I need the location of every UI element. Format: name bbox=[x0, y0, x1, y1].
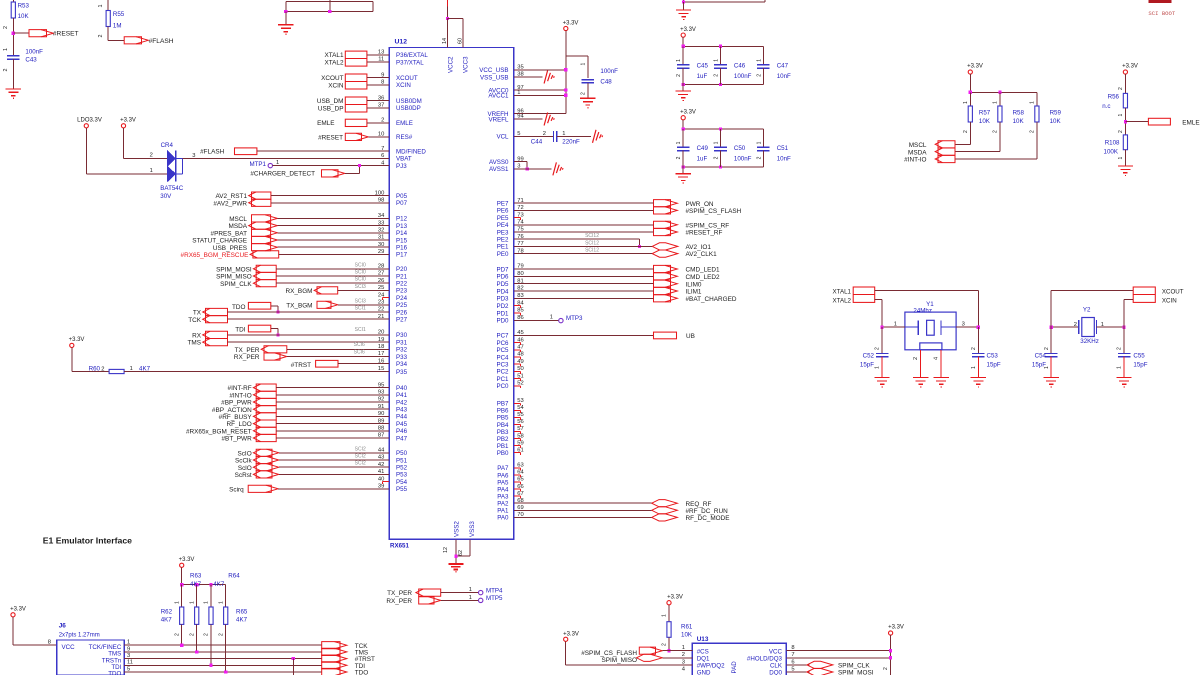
svg-text:1: 1 bbox=[1118, 114, 1124, 117]
svg-text:C44: C44 bbox=[531, 139, 543, 146]
svg-text:P51: P51 bbox=[396, 457, 408, 464]
svg-text:SCI2: SCI2 bbox=[355, 454, 366, 460]
svg-text:1: 1 bbox=[581, 63, 587, 66]
svg-text:VCC2: VCC2 bbox=[447, 56, 454, 73]
svg-text:XCIN: XCIN bbox=[396, 82, 411, 89]
svg-text:VCC: VCC bbox=[769, 648, 783, 655]
svg-text:P32: P32 bbox=[396, 347, 408, 354]
svg-text:1: 1 bbox=[204, 601, 210, 604]
svg-text:PB3: PB3 bbox=[497, 429, 509, 436]
svg-text:XTAL1: XTAL1 bbox=[324, 52, 344, 59]
svg-text:ScIO: ScIO bbox=[237, 450, 251, 457]
svg-text:P24: P24 bbox=[396, 295, 408, 302]
svg-text:AV2_RST1: AV2_RST1 bbox=[216, 193, 248, 200]
svg-text:PD7: PD7 bbox=[496, 266, 509, 273]
svg-text:P44: P44 bbox=[396, 414, 408, 421]
svg-text:BAT54C: BAT54C bbox=[160, 185, 183, 192]
svg-text:1: 1 bbox=[993, 101, 999, 104]
svg-text:P55: P55 bbox=[396, 486, 408, 493]
svg-text:EMLE: EMLE bbox=[1182, 119, 1199, 126]
svg-text:2: 2 bbox=[963, 130, 969, 133]
svg-text:1: 1 bbox=[469, 595, 472, 601]
svg-text:8: 8 bbox=[791, 645, 794, 651]
svg-text:PD6: PD6 bbox=[496, 274, 509, 281]
svg-text:XTAL1: XTAL1 bbox=[833, 288, 852, 295]
svg-text:P13: P13 bbox=[396, 223, 408, 230]
svg-text:2: 2 bbox=[581, 92, 587, 95]
svg-text:C55: C55 bbox=[1133, 353, 1145, 360]
svg-text:1uF: 1uF bbox=[697, 155, 708, 162]
svg-text:CMD_LED2: CMD_LED2 bbox=[686, 274, 721, 281]
svg-text:EMLE: EMLE bbox=[396, 120, 413, 127]
svg-text:2: 2 bbox=[189, 633, 195, 636]
svg-text:CLK: CLK bbox=[770, 663, 783, 670]
svg-text:2: 2 bbox=[150, 153, 153, 159]
svg-text:VCL: VCL bbox=[496, 134, 509, 141]
svg-text:PE6: PE6 bbox=[497, 208, 509, 215]
svg-text:SCI BOOT: SCI BOOT bbox=[1148, 10, 1175, 17]
svg-text:SCI1: SCI1 bbox=[355, 306, 366, 312]
svg-text:TX_BGM: TX_BGM bbox=[286, 302, 312, 309]
svg-text:VSS_USB: VSS_USB bbox=[480, 74, 509, 81]
svg-text:P52: P52 bbox=[396, 465, 408, 472]
svg-text:SPIM_MOSI: SPIM_MOSI bbox=[838, 670, 874, 675]
svg-text:SPIM_MISO: SPIM_MISO bbox=[216, 274, 252, 281]
svg-text:PE2: PE2 bbox=[497, 237, 509, 244]
svg-text:+3.3V: +3.3V bbox=[563, 21, 579, 27]
svg-text:P05: P05 bbox=[396, 193, 408, 200]
svg-text:P25: P25 bbox=[396, 302, 408, 309]
svg-text:P17: P17 bbox=[396, 252, 408, 259]
svg-text:2: 2 bbox=[101, 366, 104, 372]
svg-text:J6: J6 bbox=[59, 622, 67, 629]
svg-text:10K: 10K bbox=[979, 118, 991, 125]
svg-text:#RX65_BGM_RESCUE: #RX65_BGM_RESCUE bbox=[181, 252, 249, 259]
svg-text:1: 1 bbox=[3, 48, 9, 51]
svg-text:10K: 10K bbox=[1013, 118, 1025, 125]
svg-text:4K7: 4K7 bbox=[213, 581, 225, 588]
svg-text:MTP4: MTP4 bbox=[486, 587, 503, 594]
svg-text:P42: P42 bbox=[396, 399, 408, 406]
svg-text:VCC: VCC bbox=[62, 644, 76, 651]
svg-text:+3.3V: +3.3V bbox=[10, 606, 26, 612]
svg-text:SPIM_MISO: SPIM_MISO bbox=[601, 657, 637, 664]
svg-text:2: 2 bbox=[883, 667, 889, 670]
svg-text:CMD_LED1: CMD_LED1 bbox=[686, 267, 721, 274]
svg-text:PE7: PE7 bbox=[497, 201, 509, 208]
svg-text:10nF: 10nF bbox=[777, 73, 791, 80]
svg-text:XCOUT: XCOUT bbox=[396, 75, 418, 82]
svg-text:PB4: PB4 bbox=[497, 422, 509, 429]
svg-text:SCI0: SCI0 bbox=[355, 277, 366, 283]
svg-text:#SPIM_CS_RF: #SPIM_CS_RF bbox=[686, 222, 730, 229]
svg-text:MSDA: MSDA bbox=[908, 149, 927, 156]
svg-text:GND: GND bbox=[697, 670, 711, 675]
svg-text:#RX65x_BGM_RESET: #RX65x_BGM_RESET bbox=[186, 428, 252, 435]
svg-text:PC1: PC1 bbox=[496, 376, 509, 383]
svg-text:1: 1 bbox=[756, 141, 762, 144]
svg-text:PC6: PC6 bbox=[496, 340, 509, 347]
svg-text:2: 2 bbox=[3, 26, 9, 29]
svg-text:1: 1 bbox=[218, 601, 224, 604]
svg-text:n.c: n.c bbox=[1102, 103, 1110, 110]
svg-text:2: 2 bbox=[1118, 87, 1124, 90]
svg-text:1: 1 bbox=[550, 315, 553, 321]
svg-text:USB_PRES: USB_PRES bbox=[213, 245, 247, 252]
svg-text:2: 2 bbox=[543, 131, 546, 137]
svg-text:P16: P16 bbox=[396, 245, 408, 252]
svg-text:P36/EXTAL: P36/EXTAL bbox=[396, 52, 428, 59]
svg-text:2: 2 bbox=[756, 156, 762, 159]
svg-text:2: 2 bbox=[98, 35, 104, 38]
svg-text:#CS: #CS bbox=[697, 648, 709, 655]
svg-text:RX_PER: RX_PER bbox=[234, 354, 260, 361]
svg-text:PC0: PC0 bbox=[496, 383, 509, 390]
svg-text:2: 2 bbox=[913, 357, 919, 360]
svg-text:PC5: PC5 bbox=[496, 347, 509, 354]
svg-text:SPIM_CLK: SPIM_CLK bbox=[838, 663, 870, 670]
svg-text:P27: P27 bbox=[396, 317, 408, 324]
svg-text:#RF_BUSY: #RF_BUSY bbox=[219, 414, 253, 421]
svg-text:#FLASH: #FLASH bbox=[149, 38, 174, 45]
svg-text:PE1: PE1 bbox=[497, 244, 509, 251]
svg-text:2: 2 bbox=[676, 74, 682, 77]
svg-text:100K: 100K bbox=[1104, 149, 1119, 156]
svg-text:PA4: PA4 bbox=[497, 486, 509, 493]
svg-text:SCI3: SCI3 bbox=[355, 284, 366, 290]
svg-text:SPIM_MOSI: SPIM_MOSI bbox=[216, 266, 252, 273]
svg-text:ScClk: ScClk bbox=[235, 458, 252, 465]
svg-text:REQ_RF: REQ_RF bbox=[686, 501, 712, 508]
svg-text:9: 9 bbox=[127, 646, 130, 652]
svg-text:TDO: TDO bbox=[108, 671, 121, 675]
svg-text:+3.3V: +3.3V bbox=[888, 625, 904, 631]
svg-text:E1 Emulator Interface: E1 Emulator Interface bbox=[43, 536, 132, 546]
svg-text:2: 2 bbox=[714, 74, 720, 77]
svg-text:MTP5: MTP5 bbox=[486, 595, 503, 602]
svg-text:TDO: TDO bbox=[232, 304, 246, 311]
svg-text:PA6: PA6 bbox=[497, 472, 509, 479]
svg-text:SCI12: SCI12 bbox=[585, 233, 599, 239]
svg-text:AVSS0: AVSS0 bbox=[489, 159, 509, 166]
svg-text:PD4: PD4 bbox=[496, 288, 509, 295]
svg-text:SCI3: SCI3 bbox=[355, 299, 366, 305]
svg-text:P12: P12 bbox=[396, 216, 408, 223]
svg-text:R58: R58 bbox=[1013, 110, 1025, 117]
svg-text:AV2_CLK1: AV2_CLK1 bbox=[686, 251, 718, 258]
svg-text:U13: U13 bbox=[697, 636, 709, 643]
svg-text:1: 1 bbox=[174, 601, 180, 604]
svg-text:VSS3: VSS3 bbox=[469, 521, 476, 537]
svg-text:C46: C46 bbox=[734, 62, 746, 69]
svg-text:C52: C52 bbox=[863, 353, 875, 360]
svg-text:15pF: 15pF bbox=[1032, 362, 1046, 369]
svg-text:P47: P47 bbox=[396, 435, 408, 442]
svg-text:UB: UB bbox=[686, 333, 695, 340]
svg-text:1: 1 bbox=[469, 587, 472, 593]
svg-text:PE3: PE3 bbox=[497, 229, 509, 236]
svg-text:XTAL2: XTAL2 bbox=[324, 59, 344, 66]
svg-text:PC3: PC3 bbox=[496, 362, 509, 369]
svg-text:PE4: PE4 bbox=[497, 222, 509, 229]
svg-text:MSCL: MSCL bbox=[909, 142, 927, 149]
svg-text:R108: R108 bbox=[1105, 140, 1120, 147]
svg-text:2: 2 bbox=[1044, 347, 1050, 350]
svg-text:#BP_ACTION: #BP_ACTION bbox=[212, 407, 252, 414]
svg-text:PA2: PA2 bbox=[497, 501, 509, 508]
svg-text:C43: C43 bbox=[25, 57, 37, 64]
svg-text:10K: 10K bbox=[681, 631, 693, 638]
svg-text:PA5: PA5 bbox=[497, 479, 509, 486]
svg-text:P45: P45 bbox=[396, 421, 408, 428]
svg-text:XCIN: XCIN bbox=[328, 82, 344, 89]
svg-text:+3.3V: +3.3V bbox=[120, 117, 136, 123]
svg-text:XCIN: XCIN bbox=[1162, 297, 1177, 304]
svg-text:SCI2: SCI2 bbox=[355, 461, 366, 467]
svg-text:C45: C45 bbox=[697, 62, 709, 69]
svg-text:P35: P35 bbox=[396, 369, 408, 376]
svg-text:1: 1 bbox=[894, 321, 897, 327]
svg-text:#BT_PWR: #BT_PWR bbox=[222, 436, 253, 443]
svg-text:P14: P14 bbox=[396, 230, 408, 237]
svg-text:1: 1 bbox=[98, 5, 104, 8]
svg-text:RX_BGM: RX_BGM bbox=[286, 288, 313, 295]
svg-text:EMLE: EMLE bbox=[317, 120, 334, 127]
svg-text:Y2: Y2 bbox=[1083, 307, 1091, 314]
svg-text:1: 1 bbox=[676, 59, 682, 62]
svg-text:XCOUT: XCOUT bbox=[321, 75, 343, 82]
svg-text:P23: P23 bbox=[396, 288, 408, 295]
svg-text:+3.3V: +3.3V bbox=[69, 337, 85, 343]
svg-text:P54: P54 bbox=[396, 479, 408, 486]
svg-text:1M: 1M bbox=[113, 23, 122, 30]
svg-text:#INT-IO: #INT-IO bbox=[229, 392, 251, 399]
svg-text:2: 2 bbox=[714, 156, 720, 159]
svg-text:USB_DP: USB_DP bbox=[318, 105, 344, 112]
svg-text:#SPIM_CS_FLASH: #SPIM_CS_FLASH bbox=[686, 208, 742, 215]
svg-text:DQ0: DQ0 bbox=[769, 670, 782, 675]
svg-text:60: 60 bbox=[457, 38, 463, 44]
svg-text:2: 2 bbox=[756, 74, 762, 77]
svg-text:TMS: TMS bbox=[188, 340, 202, 347]
svg-text:#INT-IO: #INT-IO bbox=[904, 157, 926, 164]
svg-text:1: 1 bbox=[150, 168, 153, 174]
svg-text:TDI: TDI bbox=[235, 327, 246, 334]
svg-text:3: 3 bbox=[682, 659, 685, 665]
svg-text:#BAT_CHARGED: #BAT_CHARGED bbox=[686, 296, 737, 303]
svg-text:RF_LDO: RF_LDO bbox=[226, 421, 251, 428]
svg-text:1: 1 bbox=[189, 601, 195, 604]
svg-text:RX_PER: RX_PER bbox=[386, 598, 412, 605]
svg-text:62: 62 bbox=[458, 550, 464, 556]
svg-text:2: 2 bbox=[875, 347, 881, 350]
svg-text:AV2_IO1: AV2_IO1 bbox=[686, 244, 712, 251]
svg-text:C50: C50 bbox=[734, 145, 746, 152]
svg-text:P22: P22 bbox=[396, 281, 408, 288]
svg-text:ILIM1: ILIM1 bbox=[686, 289, 702, 296]
svg-text:ILIM0: ILIM0 bbox=[686, 281, 702, 288]
svg-text:MSDA: MSDA bbox=[229, 223, 248, 230]
svg-text:P31: P31 bbox=[396, 339, 408, 346]
svg-text:PWR_ON: PWR_ON bbox=[686, 201, 714, 208]
svg-text:2: 2 bbox=[204, 633, 210, 636]
svg-text:15pF: 15pF bbox=[860, 362, 874, 369]
svg-text:RES#: RES# bbox=[396, 134, 413, 141]
svg-text:1: 1 bbox=[662, 614, 668, 617]
svg-text:PE5: PE5 bbox=[497, 215, 509, 222]
svg-text:2: 2 bbox=[3, 69, 9, 72]
svg-text:R57: R57 bbox=[979, 110, 991, 117]
svg-text:MSCL: MSCL bbox=[229, 216, 247, 223]
svg-text:1: 1 bbox=[875, 366, 881, 369]
svg-text:PD3: PD3 bbox=[496, 296, 509, 303]
svg-text:15pF: 15pF bbox=[1133, 362, 1147, 369]
svg-text:SCI12: SCI12 bbox=[585, 248, 599, 254]
svg-text:PA0: PA0 bbox=[497, 515, 509, 522]
svg-text:30V: 30V bbox=[160, 193, 172, 200]
svg-text:6: 6 bbox=[791, 659, 794, 665]
svg-text:PA1: PA1 bbox=[497, 508, 509, 515]
svg-text:C47: C47 bbox=[777, 62, 789, 69]
svg-text:C51: C51 bbox=[777, 145, 789, 152]
svg-text:P34: P34 bbox=[396, 361, 408, 368]
svg-text:VCC_USB: VCC_USB bbox=[479, 67, 508, 74]
svg-text:1: 1 bbox=[756, 59, 762, 62]
svg-text:32KHz: 32KHz bbox=[1080, 338, 1099, 345]
svg-text:PD1: PD1 bbox=[496, 310, 509, 317]
svg-text:#TRST: #TRST bbox=[291, 362, 311, 369]
svg-text:C49: C49 bbox=[697, 145, 709, 152]
svg-text:C53: C53 bbox=[987, 353, 999, 360]
svg-text:XTAL2: XTAL2 bbox=[833, 297, 852, 304]
svg-text:P41: P41 bbox=[396, 392, 408, 399]
svg-text:100nF: 100nF bbox=[25, 48, 43, 55]
svg-text:VCC3: VCC3 bbox=[463, 56, 470, 73]
svg-text:R56: R56 bbox=[1108, 94, 1120, 101]
svg-text:4: 4 bbox=[682, 666, 686, 672]
svg-text:AVSS1: AVSS1 bbox=[489, 166, 509, 173]
svg-text:R63: R63 bbox=[190, 573, 202, 580]
svg-text:SclO: SclO bbox=[238, 465, 252, 472]
svg-text:Scirq: Scirq bbox=[229, 486, 244, 493]
svg-text:PB0: PB0 bbox=[497, 450, 509, 457]
svg-text:STATUT_CHARGE: STATUT_CHARGE bbox=[192, 238, 247, 245]
svg-text:2: 2 bbox=[1030, 130, 1036, 133]
svg-text:R53: R53 bbox=[18, 3, 30, 10]
svg-text:P37/XTAL: P37/XTAL bbox=[396, 59, 424, 66]
svg-text:SCI6: SCI6 bbox=[354, 342, 365, 348]
svg-text:+3.3V: +3.3V bbox=[967, 64, 983, 70]
svg-text:PAD: PAD bbox=[731, 661, 738, 674]
svg-text:4: 4 bbox=[933, 357, 939, 360]
svg-text:P21: P21 bbox=[396, 273, 408, 280]
svg-text:TDO: TDO bbox=[355, 670, 369, 675]
svg-text:1: 1 bbox=[1118, 157, 1124, 160]
svg-text:PB7: PB7 bbox=[497, 401, 509, 408]
svg-text:P43: P43 bbox=[396, 407, 408, 414]
svg-text:DQ1: DQ1 bbox=[697, 656, 710, 663]
svg-text:P53: P53 bbox=[396, 472, 408, 479]
svg-text:SCI0: SCI0 bbox=[355, 270, 366, 276]
svg-text:P50: P50 bbox=[396, 450, 408, 457]
svg-text:ScRst: ScRst bbox=[235, 472, 252, 479]
svg-text:+3.3V: +3.3V bbox=[680, 110, 696, 116]
svg-text:VREFL: VREFL bbox=[489, 116, 510, 123]
svg-text:SCI6: SCI6 bbox=[354, 349, 365, 355]
svg-text:P46: P46 bbox=[396, 428, 408, 435]
svg-text:+3.3V: +3.3V bbox=[179, 557, 195, 563]
svg-text:1: 1 bbox=[1117, 366, 1123, 369]
svg-text:P20: P20 bbox=[396, 266, 408, 273]
svg-text:#INT-RF: #INT-RF bbox=[228, 385, 252, 392]
svg-text:10nF: 10nF bbox=[777, 155, 791, 162]
svg-text:1: 1 bbox=[676, 141, 682, 144]
svg-text:+3.3V: +3.3V bbox=[667, 594, 683, 600]
svg-text:#AV2_PWR: #AV2_PWR bbox=[213, 200, 247, 207]
svg-text:R64: R64 bbox=[228, 573, 240, 580]
svg-text:12: 12 bbox=[443, 547, 449, 553]
svg-text:#RESET: #RESET bbox=[53, 31, 79, 38]
svg-text:2: 2 bbox=[993, 130, 999, 133]
svg-text:10K: 10K bbox=[1050, 118, 1062, 125]
svg-text:R61: R61 bbox=[681, 623, 693, 630]
svg-text:#WP/DQ2: #WP/DQ2 bbox=[697, 663, 725, 670]
svg-text:2: 2 bbox=[218, 633, 224, 636]
svg-text:PB5: PB5 bbox=[497, 415, 509, 422]
svg-text:SCI12: SCI12 bbox=[585, 240, 599, 246]
svg-text:2: 2 bbox=[676, 156, 682, 159]
svg-text:P30: P30 bbox=[396, 332, 408, 339]
svg-text:TX_PER: TX_PER bbox=[235, 347, 260, 354]
svg-text:SCI0: SCI0 bbox=[355, 262, 366, 268]
svg-text:3: 3 bbox=[192, 153, 195, 159]
svg-text:XCOUT: XCOUT bbox=[1162, 288, 1184, 295]
svg-text:RX651: RX651 bbox=[390, 543, 409, 550]
svg-text:PB6: PB6 bbox=[497, 408, 509, 415]
svg-text:USB0DM: USB0DM bbox=[396, 98, 422, 105]
svg-text:1: 1 bbox=[276, 160, 279, 166]
svg-text:CR4: CR4 bbox=[161, 142, 174, 149]
svg-text:USB0DP: USB0DP bbox=[396, 105, 421, 112]
svg-text:+3.3V: +3.3V bbox=[680, 27, 696, 33]
svg-text:TX: TX bbox=[193, 310, 202, 317]
svg-text:PB1: PB1 bbox=[497, 443, 509, 450]
svg-text:PA7: PA7 bbox=[497, 465, 509, 472]
svg-text:100nF: 100nF bbox=[600, 68, 618, 75]
svg-text:SCI1: SCI1 bbox=[355, 327, 366, 333]
svg-text:1: 1 bbox=[714, 141, 720, 144]
svg-text:2: 2 bbox=[174, 633, 180, 636]
svg-text:R59: R59 bbox=[1050, 110, 1062, 117]
svg-text:1: 1 bbox=[1030, 101, 1036, 104]
svg-text:VBAT: VBAT bbox=[396, 156, 412, 163]
svg-text:P07: P07 bbox=[396, 200, 408, 207]
svg-text:1: 1 bbox=[1101, 322, 1104, 328]
svg-text:1uF: 1uF bbox=[697, 73, 708, 80]
svg-text:RF_DC_MODE: RF_DC_MODE bbox=[686, 515, 730, 522]
svg-text:PB2: PB2 bbox=[497, 436, 509, 443]
svg-text:2: 2 bbox=[1074, 322, 1077, 328]
svg-text:P33: P33 bbox=[396, 354, 408, 361]
svg-text:C48: C48 bbox=[600, 78, 612, 85]
svg-text:+3.3V: +3.3V bbox=[1122, 64, 1138, 70]
svg-text:PC2: PC2 bbox=[496, 369, 509, 376]
svg-text:#RESET: #RESET bbox=[318, 134, 343, 141]
svg-text:R60: R60 bbox=[89, 365, 101, 372]
svg-text:MTP3: MTP3 bbox=[566, 315, 583, 322]
svg-text:#HOLD/DQ3: #HOLD/DQ3 bbox=[747, 656, 783, 663]
svg-text:100nF: 100nF bbox=[734, 155, 752, 162]
